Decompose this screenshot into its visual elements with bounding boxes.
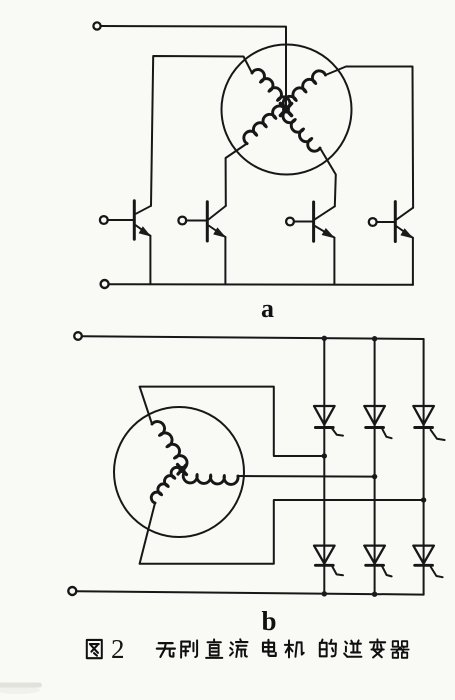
caption char 逆 xyxy=(344,640,361,656)
terminal P3 (top supply, circuit b) xyxy=(74,332,82,340)
caption char 机 xyxy=(285,640,304,657)
wire bottom rail (b) xyxy=(77,591,424,594)
terminal P1 (top supply, circuit a) xyxy=(93,22,100,29)
transistor Q2 xyxy=(178,202,226,285)
terminal P2 (bottom rail, circuit a) xyxy=(101,280,109,288)
transistor Q3 xyxy=(286,202,335,285)
wire leg 3 vertical xyxy=(423,339,425,595)
motor stator circle (b) xyxy=(114,407,244,537)
junction dot midpoint leg 2 xyxy=(372,474,377,479)
wire W4 to Q3 collector xyxy=(320,148,336,206)
svg-text:2: 2 xyxy=(111,634,125,664)
terminal P4 (bottom rail, circuit b) xyxy=(68,587,76,595)
caption char 电 xyxy=(263,640,276,656)
junction dot midpoint leg 1 xyxy=(322,453,327,458)
thyristor V2 (leg 2 upper) xyxy=(364,406,391,438)
winding W1 upper-left (a) xyxy=(252,70,290,110)
label a xyxy=(261,294,274,323)
winding common node (a) xyxy=(281,104,292,116)
wire winding U to thyristor midpoint 1 xyxy=(140,387,325,456)
junction dot top rail leg 1 xyxy=(322,336,327,341)
wire top rail (b) xyxy=(82,336,423,339)
paper smudge bottom-left xyxy=(0,683,42,695)
thyristor V6 (leg 3 lower) xyxy=(413,546,442,578)
wire top supply to motor center xyxy=(101,26,286,107)
caption char 无 xyxy=(157,643,175,657)
wire leg 2 vertical xyxy=(374,339,376,595)
caption char 的 xyxy=(320,640,336,657)
caption char 图 xyxy=(87,640,102,658)
winding W4 lower-right (a) xyxy=(283,110,320,151)
thyristor V1 (leg 1 upper) xyxy=(314,406,343,436)
caption char 刷 xyxy=(181,640,197,657)
caption char 直 xyxy=(206,639,222,657)
label b xyxy=(261,606,276,636)
transistor Q1 xyxy=(100,201,151,284)
winding U upper-left (b) xyxy=(152,421,187,469)
caption char 变 xyxy=(370,639,385,657)
svg-text:a: a xyxy=(261,294,274,323)
junction dot top rail leg 2 xyxy=(372,336,377,341)
motor stator circle (a) xyxy=(222,45,352,175)
wire bottom rail (a) xyxy=(109,283,413,286)
transistor Q4 xyxy=(369,202,414,285)
wire leg 1 vertical xyxy=(323,338,325,594)
caption char 器 xyxy=(391,641,408,658)
winding W lower-left (b) xyxy=(151,467,181,503)
junction dot bottom rail leg 1 xyxy=(322,591,327,596)
wire W3 to Q2 collector xyxy=(226,144,247,206)
caption char 2 xyxy=(111,634,125,664)
wire W1 to Q1 collector xyxy=(151,56,252,206)
winding V right (b) xyxy=(183,474,238,484)
junction dot midpoint leg 3 xyxy=(421,497,426,502)
star point (b) xyxy=(178,465,187,475)
thyristor V3 (leg 3 upper) xyxy=(413,406,444,440)
wire W2 to Q4 collector xyxy=(326,67,414,208)
winding W3 lower-left (a) xyxy=(244,106,286,144)
thyristor V5 (leg 2 lower) xyxy=(364,546,391,577)
wire winding W to thyristor midpoint 3 xyxy=(140,500,424,564)
winding W2 upper-right (a) xyxy=(283,71,325,109)
caption char 流 xyxy=(230,639,247,657)
wire winding V to thyristor midpoint 2 xyxy=(238,475,375,478)
thyristor V4 (leg 1 lower) xyxy=(314,546,343,576)
junction dot bottom rail leg 2 xyxy=(372,592,377,597)
svg-text:b: b xyxy=(261,606,276,636)
